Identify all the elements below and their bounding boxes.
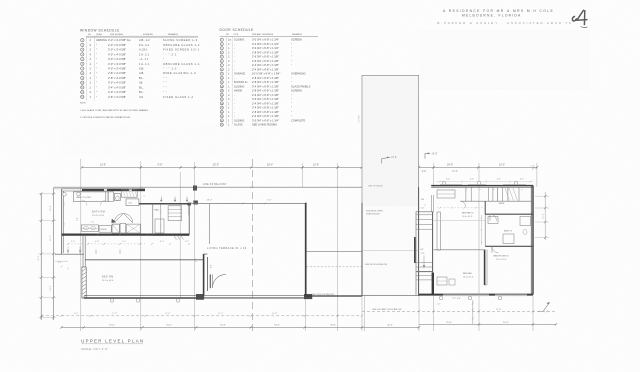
left vertical dimension strings	[38, 188, 56, 320]
door schedule table	[220, 28, 319, 126]
leader arrow	[538, 302, 550, 312]
left wing exterior wall	[53, 189, 145, 267]
upper bottom dimension string	[40, 308, 556, 317]
title block text	[437, 9, 573, 25]
stairs	[415, 195, 434, 295]
bedroom top wall	[85, 259, 203, 261]
witness lines	[303, 163, 537, 331]
lower bottom dimension string	[60, 322, 557, 329]
window reference bubbles	[63, 181, 518, 302]
right vertical dimension string	[531, 166, 550, 241]
balcony line	[53, 183, 362, 188]
right wing rooms	[434, 187, 533, 285]
column grid lines	[81, 159, 479, 331]
scattered dimension marks	[64, 179, 534, 269]
entry wall	[139, 203, 209, 244]
dimension flag 16-8 left	[382, 156, 398, 163]
top dimension line	[81, 164, 538, 173]
double door swings	[111, 214, 132, 223]
terrace east wall	[305, 203, 307, 297]
living terrace	[190, 199, 307, 250]
bottom exterior wall	[84, 294, 533, 299]
door swing arrows	[160, 197, 188, 201]
two-story shaft	[358, 75, 418, 296]
column block A	[193, 186, 196, 191]
plan caption	[81, 338, 144, 351]
corridor dimension marks	[55, 241, 190, 269]
bed room label left	[92, 210, 105, 217]
entry room fixtures	[152, 203, 189, 239]
sheet number 4	[572, 10, 587, 28]
lower bedroom	[102, 254, 207, 297]
dimension flag 16-8 right	[425, 153, 438, 159]
right wing exterior wall	[431, 184, 533, 294]
deck area	[307, 252, 362, 296]
bath band bottom wall	[62, 234, 190, 236]
window schedule table	[80, 29, 200, 119]
left wing closets and WC	[73, 190, 138, 206]
column block B	[194, 201, 198, 204]
right wing lower dims	[437, 298, 474, 324]
hatched wall pier	[82, 267, 86, 298]
bath fixtures	[81, 195, 160, 235]
door arc to terrace	[210, 274, 226, 288]
bottom wall window sills	[443, 293, 527, 296]
